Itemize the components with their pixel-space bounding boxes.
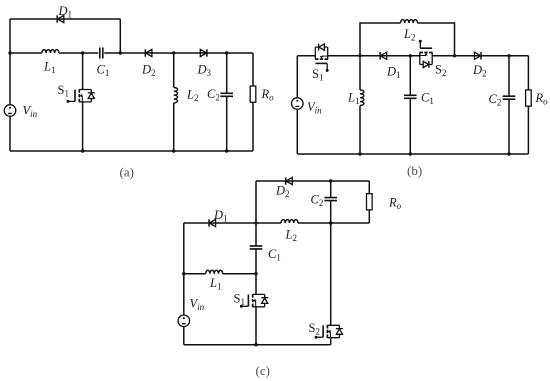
wire: (b) bottom rail xyxy=(297,153,528,155)
junction: (a) D1 return node xyxy=(119,51,122,54)
svg-text:D1: D1 xyxy=(58,4,73,19)
wire: (b) Ro upper xyxy=(527,56,529,90)
svg-text:L2: L2 xyxy=(186,88,198,104)
svg-text:Ro: Ro xyxy=(388,196,402,212)
junction: (b) L2 return node xyxy=(453,54,456,57)
svg-text:S1: S1 xyxy=(312,67,323,83)
svg-text:(c): (c) xyxy=(256,363,270,378)
svg-text:D1: D1 xyxy=(213,208,228,224)
svg-text:S1: S1 xyxy=(58,83,69,99)
wire: (a) bottom rail xyxy=(10,150,253,152)
junction: (a) left/second rail xyxy=(8,51,11,54)
junction: (b) C2 bottom node xyxy=(507,152,510,155)
diode D1 (c) xyxy=(209,219,216,226)
wire: (a) second rail L1 to C1 xyxy=(59,52,98,54)
diode D2 (b) xyxy=(474,52,481,59)
diode D3 (a) xyxy=(200,49,207,56)
svg-text:S1: S1 xyxy=(234,292,245,308)
junction: (b) C1 top node xyxy=(409,54,412,57)
wire: (b) C2 upper xyxy=(508,56,510,96)
svg-text:C1: C1 xyxy=(268,247,281,263)
capacitor C1 (c) xyxy=(250,246,263,249)
wire: (a) C2 lower xyxy=(226,96,228,151)
junction: (b) C2 top node xyxy=(507,54,510,57)
transistor S1 (c) MOSFET xyxy=(240,294,268,308)
svg-text:S2: S2 xyxy=(309,321,320,337)
svg-text:L2: L2 xyxy=(285,228,297,244)
wire: (b) left vertical upper xyxy=(296,56,298,98)
diode D2 (c) xyxy=(286,177,293,184)
transistor S1 (b) MOSFET xyxy=(315,44,329,72)
junction: (c) L1 left node xyxy=(182,272,185,275)
wire: (b) L2 loop left riser xyxy=(360,23,401,56)
svg-text:Ro: Ro xyxy=(535,91,549,107)
svg-text:D2: D2 xyxy=(472,63,487,79)
wire: (c) top rail xyxy=(256,180,369,182)
svg-text:Vin: Vin xyxy=(23,104,38,120)
svg-text:D1: D1 xyxy=(386,65,401,81)
wire: (c) L1 rail left xyxy=(184,273,206,275)
wire: (b) C1 lower xyxy=(409,98,411,154)
svg-text:C1: C1 xyxy=(421,91,434,107)
wire: (c) S2 source xyxy=(330,338,332,345)
wire: (c) bottom rail xyxy=(184,344,331,346)
wire: (b) main rail S1 to S2 xyxy=(328,55,420,57)
wire: (a) second rail left of L1 xyxy=(10,52,42,54)
capacitor C2 (a) xyxy=(220,93,233,96)
wire: (c) second rail right of L2 xyxy=(298,222,369,224)
voltage source Vin (c) xyxy=(178,315,190,327)
junction: (c) L1 right node xyxy=(254,272,257,275)
wire: (a) S1 drain xyxy=(82,53,84,90)
svg-text:L2: L2 xyxy=(403,27,415,43)
diode D2 (a) xyxy=(145,49,152,56)
resistor Ro (b) xyxy=(526,90,532,106)
junction: (b) C1 bottom node xyxy=(409,152,412,155)
resistor Ro (c) xyxy=(367,194,373,210)
wire: (a) Ro upper xyxy=(252,53,254,86)
wire: (c) C1 column lower / S1 drain xyxy=(255,249,257,294)
wire: (b) L1 lower xyxy=(359,105,361,154)
junction: (c) S1 source node xyxy=(254,343,257,346)
wire: (c) S2 drain xyxy=(330,223,332,325)
wire: (b) L1 upper xyxy=(359,56,361,90)
inductor L2 (b) xyxy=(401,20,418,23)
svg-text:Vin: Vin xyxy=(190,297,205,313)
wire: (b) left vertical lower xyxy=(296,109,298,154)
wire: (c) C1 column upper xyxy=(255,181,257,246)
wire: (a) D1 branch drop xyxy=(119,19,121,53)
wire: (a) S1 source xyxy=(82,102,84,151)
capacitor C1 (a) xyxy=(100,48,103,59)
wire: (c) S1 source xyxy=(255,307,257,345)
junction: (b) L1/L2 node xyxy=(358,54,361,57)
transistor S2 (c) MOSFET xyxy=(315,325,343,339)
wire: (c) L1 rail right xyxy=(223,273,256,275)
inductor L1 (c) xyxy=(206,270,223,273)
svg-text:S2: S2 xyxy=(435,63,446,79)
resistor Ro (a) xyxy=(250,86,256,102)
voltage source Vin (a) xyxy=(4,105,16,117)
inductor L1 (b) xyxy=(360,90,364,105)
wire: (b) main rail left of S1 xyxy=(297,55,315,57)
svg-text:C1: C1 xyxy=(97,63,110,79)
junction: (c) C2 top node xyxy=(329,179,332,182)
svg-text:D3: D3 xyxy=(197,63,212,79)
wire: (c) left vertical lower xyxy=(183,327,185,345)
wire: (a) Ro lower xyxy=(252,102,254,151)
svg-text:C2: C2 xyxy=(489,92,502,108)
diode D1 (b) xyxy=(380,52,387,59)
transistor S2 (b) MOSFET xyxy=(419,40,433,68)
junction: (a) C2 bottom node xyxy=(225,149,228,152)
capacitor C1 (b) xyxy=(404,95,417,98)
wire: (b) L2 loop right riser xyxy=(418,23,455,56)
wire: (c) Ro lower xyxy=(368,210,370,223)
wire: (c) second rail left of L2 xyxy=(184,222,281,224)
wire: (b) C2 lower xyxy=(508,99,510,154)
capacitor C2 (b) xyxy=(503,96,516,99)
svg-text:L1: L1 xyxy=(209,276,221,292)
svg-text:C2: C2 xyxy=(311,193,324,209)
wire: (b) Ro lower xyxy=(527,106,529,154)
svg-text:(b): (b) xyxy=(407,163,422,178)
wire: (a) L2 lower xyxy=(173,103,175,151)
svg-text:D2: D2 xyxy=(275,184,290,200)
junction: (a) L2 bottom node xyxy=(172,149,175,152)
inductor L1 (a) xyxy=(42,50,59,53)
junction: (a) S1 source node xyxy=(81,149,84,152)
wire: (c) C2 upper xyxy=(330,181,332,198)
inductor L2 (c) xyxy=(281,220,298,223)
svg-text:Vin: Vin xyxy=(307,100,322,116)
capacitor C2 (c) xyxy=(324,198,337,201)
transistor S1 (a) MOSFET xyxy=(67,89,95,103)
junction: (b) L1 bottom node xyxy=(358,152,361,155)
wire: (a) left vertical upper xyxy=(9,19,11,105)
wire: (b) C1 upper xyxy=(409,56,411,96)
svg-text:L1: L1 xyxy=(347,91,359,107)
wire: (b) main rail S2 to right corner xyxy=(432,55,528,57)
wire: (c) C2 lower to second rail xyxy=(330,201,332,223)
wire: (a) top rail xyxy=(10,18,120,20)
svg-text:D2: D2 xyxy=(141,63,156,79)
wire: (a) left vertical lower xyxy=(9,116,11,151)
wire: (a) second rail C1 to Ro xyxy=(104,52,253,54)
junction: (a) C2 top node xyxy=(225,51,228,54)
svg-text:L1: L1 xyxy=(43,60,55,76)
svg-text:(a): (a) xyxy=(120,164,134,179)
inductor L2 (a) xyxy=(174,88,178,103)
wire: (a) L2 upper xyxy=(173,53,175,88)
junction: (c) C1 top node xyxy=(254,221,257,224)
diode D1 (a) xyxy=(57,15,64,22)
junction: (a) L2 top node xyxy=(172,51,175,54)
junction: (a) S1 drain node xyxy=(81,51,84,54)
svg-text:C2: C2 xyxy=(207,87,220,103)
wire: (a) C2 upper xyxy=(226,53,228,93)
voltage source Vin (b) xyxy=(292,98,304,110)
svg-text:Ro: Ro xyxy=(261,87,275,103)
junction: (c) C2 bottom node xyxy=(329,221,332,224)
wire: (c) left vertical upper xyxy=(183,223,185,315)
wire: (c) Ro upper xyxy=(368,181,370,194)
